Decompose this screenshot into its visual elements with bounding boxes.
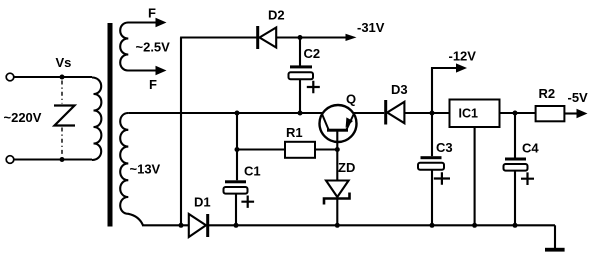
wire C2 bottom (299, 79, 301, 113)
diode D2 (260, 28, 277, 48)
arrow F top (156, 18, 167, 27)
transistor Q arrow (346, 117, 353, 127)
wire C4 top (514, 113, 516, 158)
node C2 rail (298, 111, 303, 116)
svg-text:D1: D1 (194, 195, 211, 210)
node ZD bottom (335, 223, 340, 228)
wire D2 anode (180, 36, 257, 38)
svg-text:R2: R2 (539, 86, 556, 101)
capacitor C3 plate top (421, 156, 442, 159)
wire D2 to node (276, 36, 347, 38)
capacitor C2 body (289, 72, 314, 79)
zener ZD bar (324, 193, 350, 205)
wire D1 to C1 node (209, 224, 555, 226)
resistor R1 (285, 142, 315, 158)
svg-text:-5V: -5V (568, 90, 589, 105)
transistor Q collector lead (347, 114, 354, 130)
node R1 junction (235, 147, 240, 152)
node IC1 pin bottom (472, 223, 477, 228)
svg-text:Vs: Vs (56, 55, 72, 70)
diode D1 (189, 214, 206, 237)
node junction bottom (60, 157, 65, 162)
surge element Z (54, 106, 75, 126)
wire middle rail (128, 112, 322, 114)
svg-text:F: F (148, 6, 156, 21)
svg-text:C4: C4 (522, 141, 539, 156)
diode D3 cathode bar (384, 100, 387, 125)
resistor R2 (536, 106, 565, 121)
capacitor C2 plus (307, 81, 320, 93)
svg-text:C1: C1 (244, 164, 261, 179)
wire IC1 ground pin (474, 127, 476, 225)
capacitor C4 body (504, 164, 528, 171)
transistor Q base bar (327, 129, 348, 132)
node IC1 out (513, 111, 518, 116)
wire IC1 out (500, 112, 536, 114)
wire -12V vertical (431, 67, 433, 113)
wire dash-dot lower lead of Z (61, 128, 63, 157)
wire D3 to node (404, 112, 449, 114)
node C4 bottom (513, 223, 518, 228)
terminal bottom-left (6, 156, 14, 164)
svg-text:-12V: -12V (449, 49, 477, 64)
node D2 feed bottom (179, 223, 184, 228)
svg-text:~220V: ~220V (4, 110, 42, 125)
node C1 bottom (234, 223, 239, 228)
capacitor C2 plate top (290, 65, 312, 68)
wire C2 top (299, 38, 301, 66)
ground (545, 248, 565, 252)
wire ground drop (554, 225, 556, 248)
svg-text:F: F (149, 77, 157, 92)
wire ZD bottom (336, 200, 338, 226)
wire winding to D1 (142, 224, 189, 226)
node C2 top (298, 35, 303, 40)
wire C1 bottom (235, 194, 237, 226)
wire C3 top (431, 113, 433, 156)
svg-text:D3: D3 (391, 82, 408, 97)
svg-text:Q: Q (346, 92, 356, 107)
terminal top-left (6, 73, 14, 81)
capacitor C3 body (418, 163, 444, 170)
svg-text:D2: D2 (268, 8, 285, 23)
diode D3 (387, 102, 404, 123)
wire dash-dot upper lead of Z (61, 81, 63, 104)
capacitor C1 plate top (225, 180, 246, 183)
diode D1 cathode bar (206, 214, 209, 237)
wire bottom input (14, 158, 92, 160)
node Vs junction top (60, 75, 65, 80)
transformer secondary winding 13V (120, 113, 143, 225)
capacitor C3 plus (434, 172, 450, 185)
arrow -5V (577, 109, 588, 118)
svg-text:~2.5V: ~2.5V (136, 40, 171, 55)
wire Q to D3 (354, 112, 384, 114)
wire C3 bottom (431, 170, 433, 226)
node C3 bottom (430, 223, 435, 228)
wire C4 bottom (514, 171, 516, 226)
wire D2 feed vertical (180, 38, 182, 226)
wire R1 left (237, 148, 285, 150)
capacitor C4 plus (521, 172, 534, 185)
capacitor C1 body (224, 187, 248, 194)
regulator IC1 (450, 100, 500, 128)
arrow -31V (346, 34, 357, 41)
svg-text:R1: R1 (286, 125, 303, 140)
svg-text:~13V: ~13V (130, 162, 161, 177)
wire Q base down (336, 131, 338, 181)
wire top input (14, 76, 92, 78)
capacitor C4 plate top (505, 158, 526, 161)
transformer primary winding (92, 78, 101, 161)
svg-text:IC1: IC1 (459, 107, 479, 121)
wire -12V horizontal (431, 67, 457, 69)
arrow -12V (456, 63, 467, 72)
wire R2 out (564, 112, 578, 114)
transformer secondary winding 2.5V (120, 23, 157, 71)
zener ZD (326, 181, 349, 198)
diode D2 cathode bar (256, 26, 259, 49)
node C1 branch rail (235, 111, 240, 116)
node base junction (335, 147, 340, 152)
wire R1 right (315, 148, 337, 150)
node D3 out (430, 111, 435, 116)
capacitor C1 plus (241, 196, 254, 208)
transformer core (108, 23, 113, 227)
svg-text:-31V: -31V (357, 20, 385, 35)
svg-text:C2: C2 (304, 46, 321, 61)
wire C1 branch vertical (236, 113, 238, 180)
svg-text:C3: C3 (436, 140, 453, 155)
transistor Q circle (320, 105, 357, 142)
arrow F bottom (156, 66, 167, 75)
svg-text:ZD: ZD (338, 160, 355, 175)
transistor Q emitter lead (322, 114, 329, 130)
